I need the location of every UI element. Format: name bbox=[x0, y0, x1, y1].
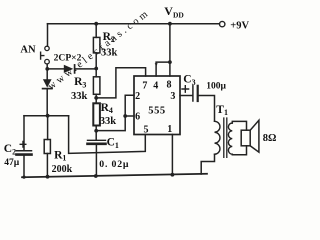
svg-text:8Ω: 8Ω bbox=[263, 133, 277, 144]
svg-text:200k: 200k bbox=[52, 164, 73, 175]
svg-text:555: 555 bbox=[148, 106, 166, 117]
svg-text:2: 2 bbox=[135, 91, 140, 102]
svg-text:1: 1 bbox=[167, 124, 172, 135]
svg-text:6: 6 bbox=[135, 111, 140, 122]
svg-text:33k: 33k bbox=[101, 48, 118, 59]
svg-text:0. 02µ: 0. 02µ bbox=[99, 159, 129, 170]
svg-text:AN: AN bbox=[20, 44, 36, 55]
svg-text:3: 3 bbox=[170, 91, 175, 102]
svg-text:100µ: 100µ bbox=[206, 82, 226, 92]
svg-text:4: 4 bbox=[153, 80, 158, 91]
svg-text:33k: 33k bbox=[100, 116, 117, 127]
svg-text:2CP×2: 2CP×2 bbox=[54, 53, 82, 64]
svg-text:8: 8 bbox=[167, 80, 172, 91]
svg-text:47µ: 47µ bbox=[4, 158, 19, 168]
svg-text:7: 7 bbox=[142, 80, 147, 91]
svg-text:33k: 33k bbox=[71, 91, 88, 102]
svg-text:+9V: +9V bbox=[230, 21, 249, 32]
svg-text:5: 5 bbox=[144, 124, 149, 135]
